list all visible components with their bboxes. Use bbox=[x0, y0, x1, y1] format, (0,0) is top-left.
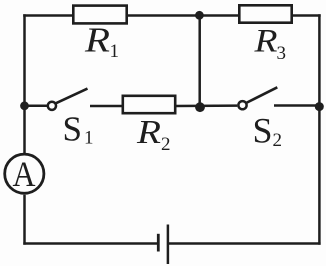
svg-text:S: S bbox=[253, 111, 273, 151]
svg-text:A: A bbox=[13, 154, 36, 194]
svg-text:2: 2 bbox=[161, 134, 171, 155]
svg-text:1: 1 bbox=[110, 41, 120, 62]
svg-text:R: R bbox=[136, 114, 161, 151]
svg-text:3: 3 bbox=[277, 43, 287, 64]
svg-text:R: R bbox=[253, 24, 277, 60]
svg-text:2: 2 bbox=[273, 130, 283, 151]
svg-text:S: S bbox=[63, 110, 82, 149]
svg-text:1: 1 bbox=[84, 128, 94, 149]
svg-text:R: R bbox=[84, 21, 110, 60]
